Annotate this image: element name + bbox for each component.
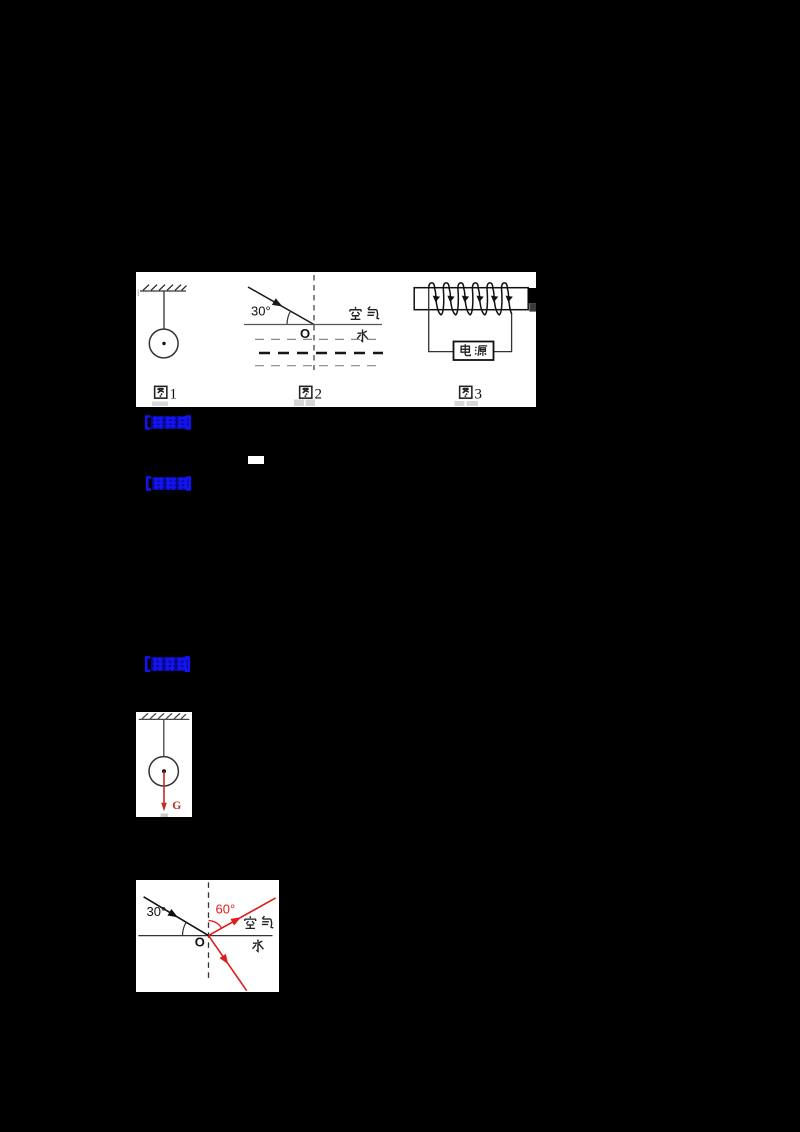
gray end block	[529, 303, 536, 311]
blue heading 【分析】	[144, 415, 192, 430]
normal dashed line	[313, 275, 315, 370]
axle dot	[162, 769, 166, 773]
coil winding	[429, 283, 512, 315]
pulley wheel	[149, 329, 178, 358]
svg-text:30°: 30°	[147, 904, 167, 919]
svg-text:2: 2	[315, 387, 323, 403]
label 图2	[300, 386, 322, 402]
iron core bar	[414, 288, 528, 310]
wire left	[429, 288, 454, 351]
water dashes row 1	[255, 338, 381, 340]
refracted ray (red)	[209, 936, 247, 991]
label 空气	[350, 307, 379, 320]
incident ray	[144, 897, 209, 936]
red angle arc 60	[209, 921, 222, 929]
svg-text:60°: 60°	[216, 902, 236, 917]
label 图1	[155, 386, 177, 402]
gray marks under 图3	[455, 401, 465, 406]
ceiling	[140, 285, 187, 291]
black end block	[528, 288, 536, 303]
label 空气	[245, 916, 273, 928]
blue heading 【解答】	[145, 476, 192, 491]
gray smudge	[161, 814, 169, 818]
weight arrow G	[161, 771, 167, 811]
pulley axle dot	[162, 342, 165, 345]
panel 3: reflection and refraction answer diagram	[136, 880, 279, 992]
svg-text:3: 3	[475, 387, 483, 403]
gray mark under 图1	[152, 402, 168, 407]
refracted arrowhead	[219, 954, 231, 967]
reflected ray (red)	[209, 898, 276, 936]
blue heading 【点评】	[144, 656, 191, 672]
coil current arrows	[432, 296, 513, 303]
black angle arc	[183, 923, 187, 936]
svg-text:O: O	[300, 326, 310, 341]
panel 2: pulley with weight arrow G	[136, 712, 192, 817]
svg-text:G: G	[172, 800, 181, 812]
formula fragment (white)	[248, 456, 264, 464]
incident arrowhead	[272, 298, 284, 310]
gray marks under 图2	[294, 400, 304, 407]
ceiling	[139, 713, 190, 719]
water surface line	[138, 935, 272, 937]
ceiling left cap	[137, 290, 139, 297]
label 水	[253, 939, 264, 951]
power source box 电源	[454, 342, 494, 361]
label 水	[357, 329, 368, 341]
water dashes row 3	[255, 365, 381, 367]
normal dashed line	[208, 882, 210, 980]
incident ray	[248, 287, 314, 325]
reflected arrowhead	[230, 914, 242, 926]
svg-text:O: O	[195, 935, 205, 950]
angle arc 30	[287, 311, 291, 325]
wire right	[494, 314, 512, 351]
water dashes row 2	[259, 352, 383, 355]
pulley wheel	[149, 757, 178, 786]
panel 1: problem figures 图1 图2 图3	[136, 272, 536, 407]
water surface line	[244, 324, 382, 326]
label 图3	[460, 386, 482, 402]
rope	[163, 719, 165, 756]
rope	[163, 291, 165, 330]
incident arrowhead	[167, 909, 179, 921]
svg-text:30°: 30°	[251, 304, 271, 319]
svg-text:1: 1	[170, 387, 178, 403]
